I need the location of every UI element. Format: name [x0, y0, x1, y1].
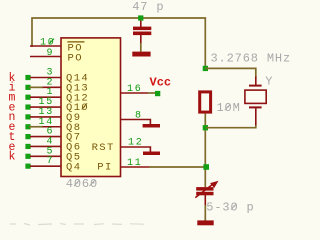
wire C1 to ground	[140, 43, 142, 52]
pin 8 GND	[120, 110, 150, 124]
ground under C1	[132, 52, 150, 57]
pin 4 Q6	[25, 136, 61, 149]
wire trimmer to ground	[204, 205, 206, 221]
svg-text:10M: 10M	[217, 101, 241, 115]
svg-text:16: 16	[127, 84, 142, 95]
trimmer capacitor C2 5-30p	[195, 181, 218, 206]
op IC U1 4060 body	[61, 38, 121, 177]
wire junction to crystal top	[205, 68, 256, 77]
label kimenetek	[9, 72, 16, 164]
pin 16 Vcc	[120, 84, 160, 96]
svg-text:3.2768 MHz: 3.2768 MHz	[211, 52, 292, 66]
svg-text:PI: PI	[97, 162, 112, 174]
svg-text:Q4: Q4	[66, 161, 81, 173]
svg-text:5-30 p: 5-30 p	[206, 201, 254, 215]
node junction at crystal bottom	[203, 125, 208, 130]
wire net top: pin10 up and across to crystal branch	[32, 18, 205, 66]
wire crystal bottom to junction	[206, 125, 256, 128]
svg-text:k: k	[9, 151, 16, 164]
node junction at pin11 net	[203, 164, 209, 170]
pin 14 Q8	[25, 117, 61, 130]
svg-text:Y: Y	[265, 74, 273, 88]
svg-text:7: 7	[47, 156, 55, 167]
resistor R1	[200, 92, 211, 112]
pin 3 Q14	[25, 68, 61, 81]
ground at pin 12	[143, 152, 160, 156]
pin 10	[30, 38, 61, 49]
svg-text:RST: RST	[92, 142, 115, 154]
pin 1 Q12	[25, 87, 61, 100]
pin 11 PI	[120, 158, 150, 169]
crystal Y1 3.2768 MHz	[245, 77, 266, 126]
pin 6 Q7	[25, 127, 61, 140]
pin 9	[30, 48, 61, 59]
svg-text:9: 9	[47, 48, 55, 59]
wire pin11 to oscillator node	[149, 166, 205, 168]
capacitor C1 47p	[133, 21, 151, 44]
node junction above resistor	[203, 66, 208, 71]
wire resistor bottom down to trimmer	[204, 114, 206, 187]
svg-text:4060: 4060	[66, 177, 98, 191]
ground under trimmer	[197, 220, 213, 225]
pin 5 Q5	[25, 146, 61, 159]
IC pin name !PO with overline	[67, 42, 84, 55]
slashed zero marks	[49, 39, 237, 210]
ground at pin 8	[143, 124, 160, 128]
node junction at C1 top	[138, 15, 143, 20]
svg-text:Vcc: Vcc	[150, 76, 172, 90]
svg-text:PO: PO	[68, 52, 83, 64]
pin 15 Q10	[25, 97, 61, 110]
svg-text:11: 11	[127, 158, 142, 169]
pin 12 RST	[120, 137, 150, 151]
svg-text:8: 8	[135, 110, 143, 121]
pin 13 Q9	[25, 107, 61, 120]
pin 7 Q4	[25, 156, 61, 169]
faint cropped text remnants along bottom edge	[10, 224, 144, 226]
pin 2 Q13	[25, 77, 61, 90]
svg-text:12: 12	[128, 137, 143, 148]
svg-text:47 p: 47 p	[132, 0, 164, 14]
